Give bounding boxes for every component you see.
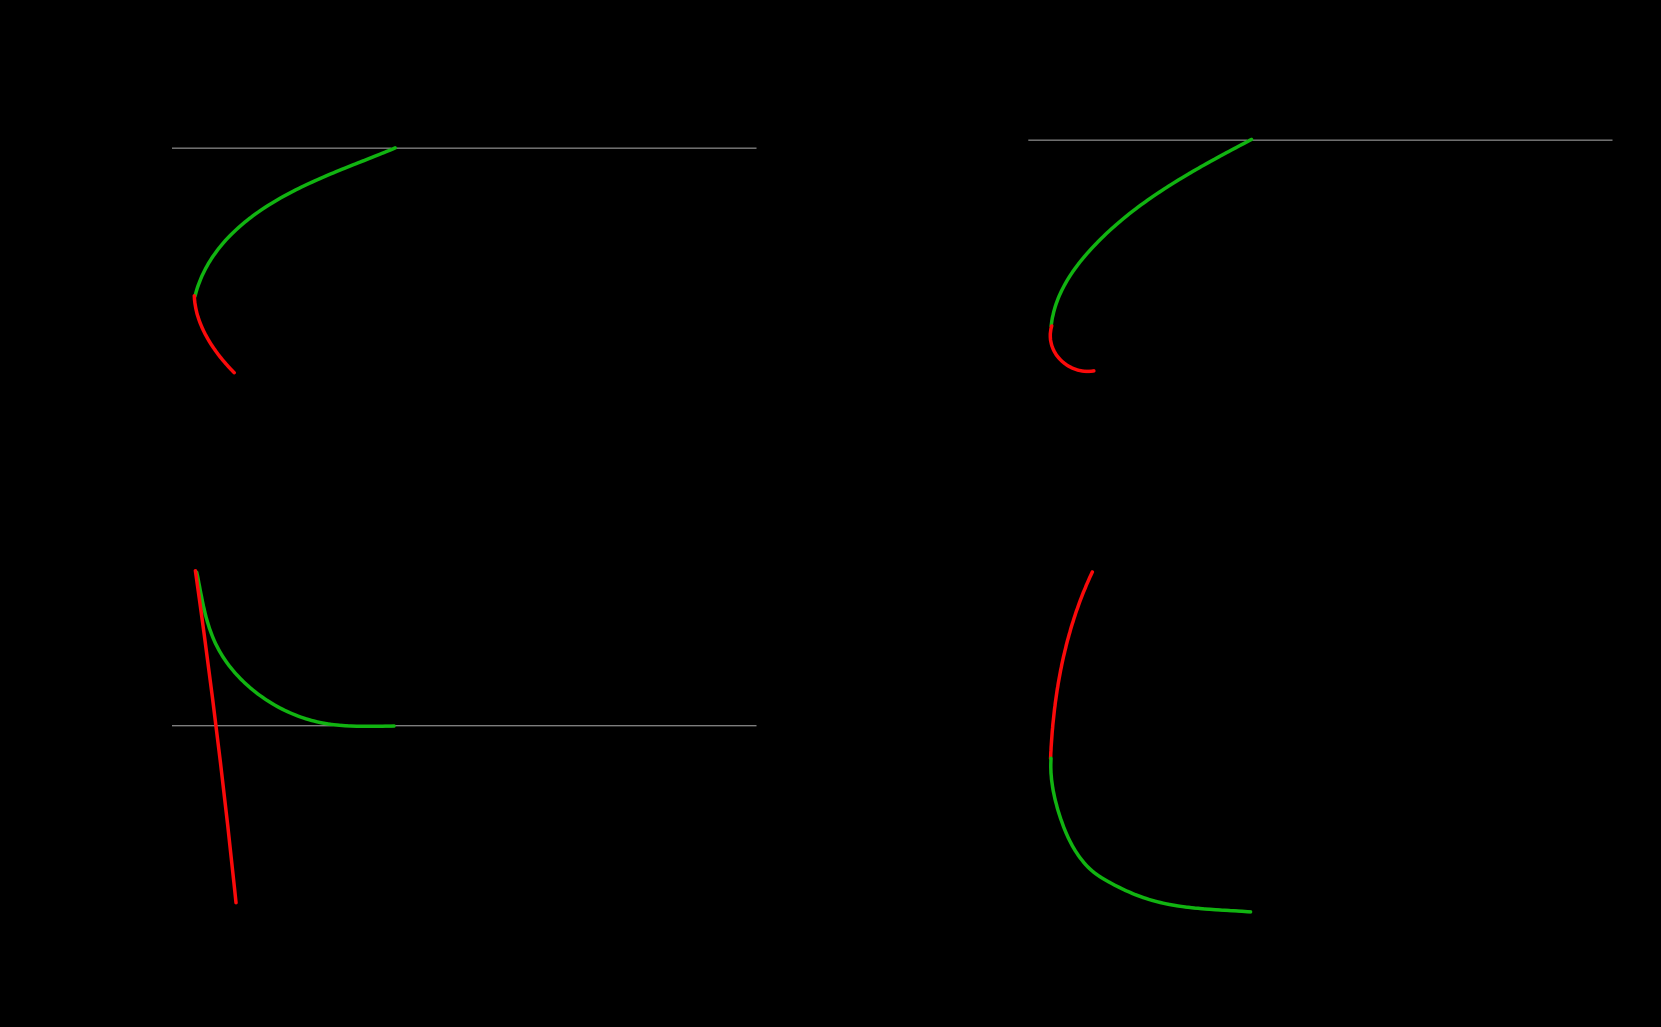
abline panel3 xyxy=(172,725,757,727)
curve panel1 green branch xyxy=(195,148,395,296)
curve panel1 red branch xyxy=(194,296,234,373)
curve panel4 red branch xyxy=(1051,572,1093,759)
curve panel3 green curve xyxy=(197,572,394,726)
curve panel2 red branch xyxy=(1050,326,1094,371)
curve panel4 green branch xyxy=(1051,758,1251,912)
curve panel3 red tangent xyxy=(195,571,236,903)
curve panel2 green branch xyxy=(1051,139,1251,326)
abline panel2 xyxy=(1028,139,1612,141)
abline panel1 xyxy=(172,147,757,149)
